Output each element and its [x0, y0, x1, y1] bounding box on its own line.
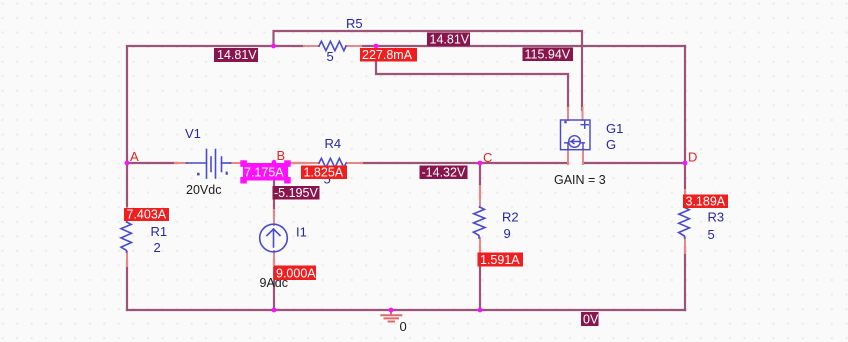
voltage source V1 battery symbol	[187, 150, 231, 179]
junction node A	[125, 161, 130, 166]
svg-text:0V: 0V	[583, 312, 599, 326]
svg-text:2: 2	[154, 240, 161, 255]
iprobe 1.825A	[301, 165, 347, 179]
wire: C down through R2 to bottom rail	[479, 163, 481, 310]
svg-text:R3: R3	[708, 210, 725, 225]
svg-text:B: B	[277, 148, 286, 163]
viewpoint 0V	[581, 312, 599, 326]
iprobe 9.000A	[274, 266, 316, 281]
svg-text:227.8mA: 227.8mA	[362, 48, 413, 62]
svg-text:G: G	[606, 137, 616, 152]
svg-text:-5.195V: -5.195V	[274, 186, 318, 200]
svg-text:1.591A: 1.591A	[480, 253, 520, 267]
selected iprobe 7.175A with handles	[240, 160, 290, 183]
resistor R2	[473, 207, 485, 238]
junction I1 bottom	[272, 308, 277, 313]
wire: node A to V1	[127, 162, 177, 164]
resistor R1 pins	[126, 208, 128, 266]
svg-text:14.81V: 14.81V	[430, 32, 470, 46]
iprobe 1.591A	[478, 253, 524, 267]
svg-text:R5: R5	[346, 16, 363, 31]
svg-text:9: 9	[504, 226, 511, 241]
resistor R3	[679, 208, 690, 239]
wire: D down through R3 to bottom rail	[684, 163, 686, 310]
wire: iprobe right to R4	[291, 162, 305, 164]
junction R5 right (net D)	[374, 44, 379, 49]
wire: R4 to node C	[361, 162, 480, 164]
wire: left riser from top loop down to node A and R1	[127, 46, 685, 163]
svg-text:20Vdc: 20Vdc	[186, 183, 221, 197]
svg-text:G1: G1	[606, 121, 623, 136]
resistor R4	[319, 158, 346, 167]
junction node D	[683, 161, 688, 166]
junction node C	[478, 161, 483, 166]
junction node B	[272, 160, 277, 165]
wire: B down through I1 to bottom rail	[273, 163, 275, 310]
junction ground	[389, 308, 394, 313]
svg-text:115.94V: 115.94V	[525, 47, 571, 61]
wire: G1 right pin to node D	[583, 162, 685, 164]
svg-text:A: A	[130, 149, 139, 164]
resistor R1	[121, 222, 132, 252]
current source I1 circle	[260, 224, 288, 252]
svg-text:9.000A: 9.000A	[276, 267, 316, 281]
wire: bottom ground rail	[127, 309, 685, 311]
resistor R3 pins	[684, 190, 686, 253]
resistor R2 pins	[479, 186, 481, 253]
svg-text:R1: R1	[151, 224, 168, 239]
svg-text:I1: I1	[296, 225, 307, 240]
resistor R5	[319, 41, 346, 50]
svg-text:14.81V: 14.81V	[217, 48, 257, 62]
iprobe 227.8mA	[360, 48, 417, 62]
current source I1 pins	[273, 210, 275, 266]
wire: A down through R1 to bottom rail	[126, 163, 128, 310]
junction R5 left (net A)	[271, 44, 276, 49]
junction R2 bottom	[478, 308, 483, 313]
svg-text:5: 5	[327, 49, 334, 64]
iprobe 7.403A	[124, 208, 169, 222]
viewpoint 115.94V	[523, 47, 574, 61]
viewpoint -14.32V	[420, 165, 468, 179]
viewpoint -5.195V	[273, 186, 320, 200]
svg-text:1.825A: 1.825A	[304, 165, 344, 179]
viewpoint 14.81V top	[427, 32, 470, 46]
V1 polarity marks	[197, 172, 228, 176]
wire: R5 sense branch from junction1 up and over to G1 + input	[274, 31, 583, 110]
current source I1 arrow	[267, 229, 280, 247]
svg-text:7.403A: 7.403A	[127, 208, 167, 222]
controlled source G1 pins	[568, 108, 583, 164]
svg-text:-14.32V: -14.32V	[422, 165, 466, 179]
svg-text:7.175A: 7.175A	[244, 166, 284, 180]
wire: junction2 drop branch to G1 - input	[376, 46, 568, 110]
viewpoint 14.81V left	[214, 48, 258, 62]
svg-text:3.189A: 3.189A	[686, 194, 726, 208]
svg-text:R4: R4	[325, 136, 342, 151]
iprobe 3.189A	[683, 194, 728, 208]
svg-text:R2: R2	[502, 210, 519, 225]
svg-text:GAIN = 3: GAIN = 3	[554, 173, 606, 187]
svg-text:0: 0	[400, 319, 407, 334]
voltage source V1 pins	[175, 162, 244, 164]
svg-text:5: 5	[708, 227, 715, 242]
svg-text:C: C	[483, 150, 492, 165]
controlled source G1 body	[561, 120, 591, 150]
wire: node C to G1 left pin	[480, 162, 568, 164]
resistor R4 pins	[290, 162, 362, 164]
ground 0 symbol	[381, 310, 401, 322]
resistor R5 pins	[304, 45, 361, 47]
svg-text:V1: V1	[185, 126, 201, 141]
svg-text:D: D	[688, 150, 697, 165]
